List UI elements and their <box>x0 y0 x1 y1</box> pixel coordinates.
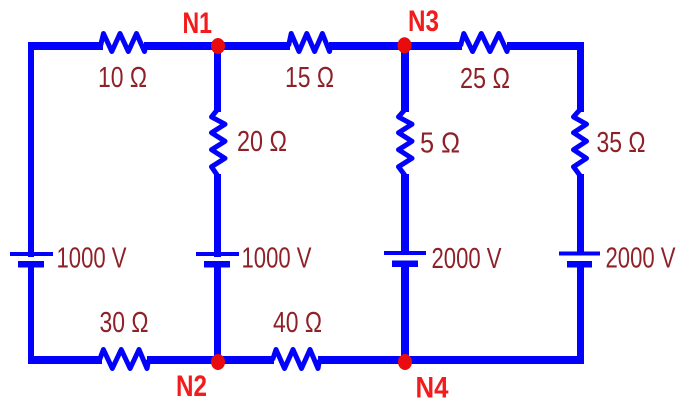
battery V2 short plate <box>204 261 230 268</box>
resistor R4 zigzag 30ohm <box>100 350 149 369</box>
wire bottom between R4 and N2 <box>147 356 274 364</box>
wire branch2 middle <box>214 174 221 257</box>
node N1 <box>211 38 225 54</box>
svg-text:40 Ω: 40 Ω <box>273 307 322 339</box>
resistor R3 zigzag 25ohm <box>461 34 509 52</box>
wire left rail upper <box>28 42 34 257</box>
svg-text:35 Ω: 35 Ω <box>597 127 646 159</box>
wire branch3 middle <box>401 174 409 251</box>
svg-text:N4: N4 <box>416 372 449 405</box>
wire top between R1 and N1 <box>144 42 290 50</box>
svg-text:30 Ω: 30 Ω <box>100 307 149 339</box>
battery V3 short plate <box>392 261 418 268</box>
resistor R7 zigzag 5ohm <box>399 110 413 176</box>
wire branch3 upper <box>401 45 409 112</box>
svg-text:15 Ω: 15 Ω <box>285 62 334 94</box>
battery V3 long plate <box>384 251 426 255</box>
wire bottom-left segment <box>28 356 102 364</box>
resistor R2 zigzag 15ohm <box>289 34 331 52</box>
resistor R5 zigzag 40ohm <box>273 350 320 369</box>
svg-text:1000 V: 1000 V <box>242 243 312 275</box>
resistor R6 zigzag 20ohm <box>212 110 226 176</box>
node N3 <box>398 37 412 53</box>
wire branch2 upper <box>214 46 221 112</box>
node N2 <box>211 354 225 370</box>
wire top-left segment <box>28 42 103 50</box>
wire top between R2 and N3 <box>329 42 462 50</box>
wire right rail upper <box>577 42 584 112</box>
svg-text:2000 V: 2000 V <box>606 243 676 275</box>
wire branch2 lower <box>214 267 221 364</box>
svg-text:N3: N3 <box>408 5 439 38</box>
wire left rail lower <box>28 267 34 364</box>
svg-text:2000 V: 2000 V <box>432 243 502 275</box>
svg-text:N1: N1 <box>183 7 213 40</box>
resistor R1 zigzag 10ohm <box>101 34 146 52</box>
battery V2 long plate <box>196 252 239 256</box>
node N4 <box>398 354 412 370</box>
svg-text:N2: N2 <box>176 370 207 403</box>
svg-text:5 Ω: 5 Ω <box>420 128 460 160</box>
wire branch3 lower <box>401 267 409 364</box>
svg-text:25 Ω: 25 Ω <box>460 63 510 95</box>
battery V4 long plate <box>559 252 600 256</box>
svg-text:1000 V: 1000 V <box>57 243 127 275</box>
svg-text:20 Ω: 20 Ω <box>237 126 287 158</box>
wire right rail lower <box>577 267 584 364</box>
battery V1 long plate <box>10 252 53 256</box>
battery V4 short plate <box>567 261 592 268</box>
svg-text:10 Ω: 10 Ω <box>98 62 147 94</box>
wire top-right segment <box>507 42 584 50</box>
battery V1 short plate <box>18 261 44 268</box>
wire bottom between N2 and N4 <box>318 356 584 364</box>
resistor R8 zigzag 35ohm <box>574 110 587 176</box>
wire right rail middle <box>577 174 584 252</box>
